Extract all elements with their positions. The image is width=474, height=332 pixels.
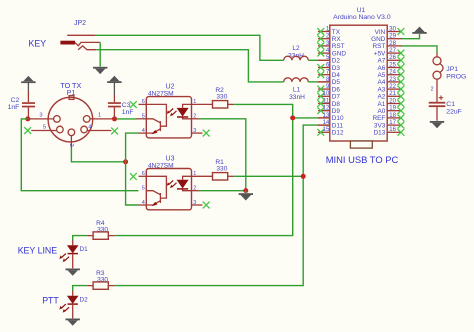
ground at opto junction [239, 193, 253, 200]
pin 6 D3 [318, 67, 330, 69]
ground above C3 [107, 76, 121, 83]
pin 24 A5 [387, 74, 402, 76]
connector JP2 [60, 20, 100, 50]
svg-text:33nH: 33nH [289, 94, 305, 101]
pin 17 3V3 [387, 124, 402, 126]
svg-text:15: 15 [323, 127, 330, 133]
pin 18 REF [387, 117, 402, 119]
svg-text:1: 1 [193, 171, 196, 177]
wire JP2 sleeve to L2 [95, 35, 284, 60]
wire JP2 switch to L1 [96, 50, 284, 82]
svg-text:16: 16 [389, 127, 396, 133]
ground above pin29 [412, 27, 426, 34]
svg-text:1nF: 1nF [8, 104, 20, 111]
svg-text:A5: A5 [377, 72, 385, 79]
svg-text:D4: D4 [332, 72, 341, 79]
svg-text:D2: D2 [80, 296, 89, 303]
svg-text:D8: D8 [332, 101, 341, 108]
pin 10 D7 [318, 95, 330, 97]
junction pin2 net [123, 159, 128, 164]
svg-text:L2: L2 [292, 45, 300, 52]
inductor L2 [284, 45, 309, 60]
svg-text:330: 330 [216, 94, 227, 101]
wire pin28 RST to JP1 [402, 46, 437, 53]
wire junction to U2 pin4 [126, 133, 139, 162]
svg-text:A7: A7 [377, 58, 385, 65]
pin 20 A1 [387, 103, 402, 105]
svg-text:PROG: PROG [446, 74, 466, 81]
pin 27 +5V [387, 52, 402, 54]
svg-text:4: 4 [142, 128, 145, 134]
svg-text:1: 1 [193, 99, 196, 105]
U3 pin2 wire to ground junction [192, 190, 200, 192]
svg-text:13: 13 [323, 113, 330, 119]
svg-text:RX: RX [332, 36, 342, 43]
capacitor C2 [8, 83, 35, 119]
wire P1 pin1 to U2 pin5 [117, 118, 137, 120]
U2 pin1 stub to R2 [192, 103, 213, 105]
svg-text:KEY: KEY [29, 39, 47, 49]
svg-text:D12: D12 [332, 130, 344, 137]
svg-text:D10: D10 [332, 115, 344, 122]
pin 23 A4 [387, 81, 402, 83]
pin 2 RX [318, 38, 330, 40]
svg-text:1: 1 [98, 113, 101, 119]
LED D1 [59, 241, 88, 269]
svg-text:11: 11 [323, 98, 330, 104]
wire JP2 tip to ground [99, 42, 101, 66]
svg-text:21: 21 [389, 91, 396, 97]
connector P1 DIN [48, 81, 93, 142]
wire R4 to D1 [73, 236, 87, 241]
pin P1-5 stub [31, 130, 56, 132]
svg-text:A1: A1 [377, 101, 385, 108]
svg-text:22uF: 22uF [446, 109, 462, 116]
svg-text:D13: D13 [374, 130, 386, 137]
svg-text:D11: D11 [332, 122, 344, 129]
IC U1 Arduino Nano [330, 7, 391, 148]
pin 4 GND [318, 52, 330, 54]
net R2 / D10 / R4 [115, 104, 293, 235]
svg-text:23: 23 [389, 77, 396, 83]
svg-text:D5: D5 [332, 79, 341, 86]
svg-text:TX: TX [332, 29, 341, 36]
U3 pin1 stub to R1 [192, 175, 213, 177]
svg-text:28: 28 [389, 41, 396, 47]
svg-text:17: 17 [389, 120, 396, 126]
svg-text:D7: D7 [332, 94, 341, 101]
pin 21 A2 [387, 95, 402, 97]
svg-text:D9: D9 [332, 108, 341, 115]
svg-text:D3: D3 [332, 65, 341, 72]
svg-text:25: 25 [389, 62, 396, 68]
svg-text:A6: A6 [377, 65, 385, 72]
net R1 / D11 / R3 [115, 176, 304, 285]
svg-text:RST: RST [332, 43, 345, 50]
svg-text:30: 30 [389, 26, 396, 32]
U2 pin3 stub [192, 132, 203, 134]
resistor R2 [213, 87, 235, 108]
svg-text:2: 2 [193, 186, 196, 192]
svg-text:D1: D1 [80, 246, 89, 253]
svg-text:2: 2 [193, 114, 196, 120]
U3 pin3 stub [192, 204, 203, 206]
svg-text:KEY LINE: KEY LINE [18, 245, 58, 255]
pin 8 D5 [318, 81, 330, 83]
wire P1 pin2 to opto emitters [70, 136, 72, 148]
resistor R3 [87, 270, 115, 289]
pin P1-4 stub [87, 130, 111, 132]
junction C2/P1 pin3 [25, 116, 30, 121]
svg-text:A4: A4 [377, 79, 385, 86]
ground above C2 [21, 76, 35, 83]
pin 11 D8 [318, 103, 330, 105]
wire P1 pin3 [28, 118, 54, 120]
svg-text:A0: A0 [377, 108, 385, 115]
inductor L1 [284, 78, 309, 101]
svg-text:19: 19 [389, 106, 396, 112]
resistor R1 [213, 159, 235, 180]
svg-text:22: 22 [389, 84, 396, 90]
svg-text:MINI USB TO PC: MINI USB TO PC [326, 154, 399, 165]
svg-text:C1: C1 [446, 101, 455, 108]
svg-text:3: 3 [193, 128, 196, 134]
svg-text:10: 10 [323, 91, 330, 97]
svg-text:29: 29 [389, 34, 396, 40]
svg-text:VIN: VIN [375, 29, 386, 36]
junction opto cathodes ground [243, 188, 248, 193]
pin 26 A7 [387, 59, 402, 61]
svg-text:3: 3 [39, 113, 42, 119]
pin 9 D6 [318, 88, 330, 90]
ground below JP2 [93, 67, 107, 74]
wire junction to U3 pin4 [126, 162, 139, 205]
junction C3/P1 pin1 [112, 116, 117, 121]
svg-text:6: 6 [142, 99, 145, 105]
pin 13 D10 [318, 117, 330, 119]
pin 25 A6 [387, 67, 402, 69]
svg-text:1nF: 1nF [122, 109, 134, 116]
svg-text:27: 27 [389, 48, 396, 54]
svg-text:Arduino Nano V3.0: Arduino Nano V3.0 [333, 14, 391, 21]
wire JP1 to C1 [436, 79, 438, 102]
wire L1 to D5 pin [308, 81, 319, 83]
wire pin29 GND to ground [402, 34, 420, 39]
pin 30 VIN [387, 31, 402, 33]
svg-text:PTT: PTT [42, 296, 59, 306]
pin 19 A0 [387, 110, 402, 112]
svg-text:2: 2 [431, 86, 434, 92]
wire P1 pin1 [90, 118, 112, 120]
svg-text:REF: REF [373, 115, 386, 122]
svg-text:2: 2 [68, 144, 74, 147]
svg-text:5: 5 [142, 114, 145, 120]
pin 5 D2 [318, 59, 330, 61]
pin 14 D11 [318, 124, 330, 126]
capacitor C3 [108, 83, 134, 119]
U3 pin6 stub [139, 175, 147, 177]
svg-text:18: 18 [389, 113, 396, 119]
resistor R4 [87, 220, 115, 239]
svg-text:U1: U1 [357, 7, 366, 14]
ground below C1 [430, 121, 444, 128]
svg-text:GND: GND [371, 36, 386, 43]
svg-text:4: 4 [142, 200, 145, 206]
ground below D2 [66, 319, 80, 326]
svg-text:12: 12 [323, 106, 330, 112]
pin 7 D4 [318, 74, 330, 76]
svg-text:5: 5 [43, 125, 46, 131]
svg-text:L1: L1 [293, 87, 301, 94]
ground below D1 [66, 269, 80, 276]
U2 pin2 wire to ground junction [192, 118, 200, 120]
capacitor C1 [429, 96, 462, 121]
svg-text:24: 24 [389, 70, 396, 76]
svg-text:14: 14 [323, 120, 330, 126]
svg-text:A3: A3 [377, 86, 385, 93]
pin 1 TX [318, 31, 330, 33]
wire R3 to D2 [73, 286, 87, 291]
svg-text:D6: D6 [332, 86, 341, 93]
svg-text:20: 20 [389, 98, 396, 104]
svg-text:5: 5 [142, 186, 145, 192]
svg-text:+5V: +5V [374, 50, 386, 57]
svg-text:330: 330 [216, 166, 227, 173]
U2 pin6 stub [139, 103, 147, 105]
svg-text:6: 6 [142, 171, 145, 177]
pin 16 D13 [387, 131, 402, 133]
svg-text:GND: GND [332, 50, 347, 57]
wire L2 to D2 pin [308, 59, 319, 61]
svg-text:RST: RST [373, 43, 386, 50]
pin 3 RST [318, 45, 330, 47]
svg-text:D2: D2 [332, 58, 341, 65]
svg-text:JP1: JP1 [446, 66, 458, 73]
jumper JP1 [433, 53, 466, 81]
svg-text:JP2: JP2 [74, 20, 86, 27]
wire C2 junction to U3 pin5 [21, 119, 138, 191]
svg-text:A2: A2 [377, 94, 385, 101]
LED D2 [59, 291, 88, 319]
svg-text:3V3: 3V3 [374, 122, 386, 129]
pin 22 A3 [387, 88, 402, 90]
pin 28 RST [387, 45, 402, 47]
svg-text:26: 26 [389, 55, 396, 61]
pin 15 D12 [318, 131, 330, 133]
pin 29 GND [387, 38, 402, 40]
pin 12 D9 [318, 110, 330, 112]
svg-text:3: 3 [193, 200, 196, 206]
